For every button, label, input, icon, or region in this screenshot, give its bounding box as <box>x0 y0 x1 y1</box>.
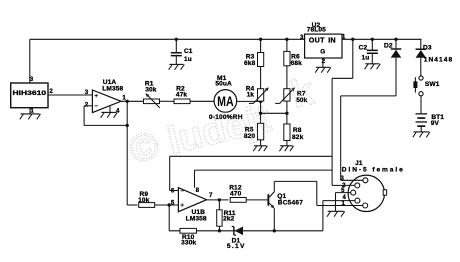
svg-text:78L05: 78L05 <box>307 27 326 34</box>
svg-text:3: 3 <box>300 34 304 41</box>
svg-text:1k: 1k <box>247 92 255 99</box>
svg-text:50uA: 50uA <box>215 81 232 88</box>
svg-text:30k: 30k <box>145 87 157 94</box>
svg-text:1u: 1u <box>361 54 369 61</box>
svg-text:9V: 9V <box>431 120 440 127</box>
svg-text:2: 2 <box>322 58 326 65</box>
svg-text:IN: IN <box>328 35 336 44</box>
svg-text:47k: 47k <box>176 91 188 98</box>
svg-text:3: 3 <box>340 176 344 182</box>
svg-text:1u: 1u <box>184 56 192 63</box>
svg-text:3: 3 <box>85 89 89 96</box>
svg-text:C1: C1 <box>184 48 193 55</box>
svg-text:C2: C2 <box>359 44 368 51</box>
svg-text:OUT: OUT <box>309 35 325 44</box>
svg-text:HIH3610: HIH3610 <box>13 90 47 97</box>
svg-text:LM358: LM358 <box>186 216 207 223</box>
svg-text:5.1V: 5.1V <box>227 243 246 250</box>
svg-text:D2: D2 <box>384 43 393 50</box>
svg-text:5: 5 <box>341 188 345 194</box>
svg-text:1: 1 <box>341 201 345 207</box>
svg-text:1: 1 <box>342 33 346 40</box>
svg-text:10k: 10k <box>138 197 150 204</box>
svg-text:LM358: LM358 <box>102 85 123 92</box>
svg-text:3: 3 <box>30 76 34 83</box>
svg-text:SW1: SW1 <box>425 81 440 88</box>
svg-text:BC5467: BC5467 <box>278 199 303 206</box>
svg-text:2: 2 <box>85 102 89 109</box>
svg-text:7: 7 <box>209 192 213 199</box>
svg-text:68k: 68k <box>291 60 303 67</box>
svg-text:8: 8 <box>196 187 200 194</box>
svg-text:1: 1 <box>122 94 126 101</box>
svg-text:6k8: 6k8 <box>244 60 256 67</box>
svg-text:2k2: 2k2 <box>223 215 235 222</box>
svg-text:G: G <box>320 49 325 56</box>
svg-text:82k: 82k <box>292 134 304 141</box>
svg-text:330k: 330k <box>181 240 196 247</box>
svg-text:1N4148: 1N4148 <box>424 56 453 63</box>
svg-text:5: 5 <box>171 200 175 207</box>
svg-text:D3: D3 <box>423 44 432 51</box>
svg-text:470: 470 <box>230 191 242 198</box>
svg-text:2: 2 <box>49 88 53 95</box>
